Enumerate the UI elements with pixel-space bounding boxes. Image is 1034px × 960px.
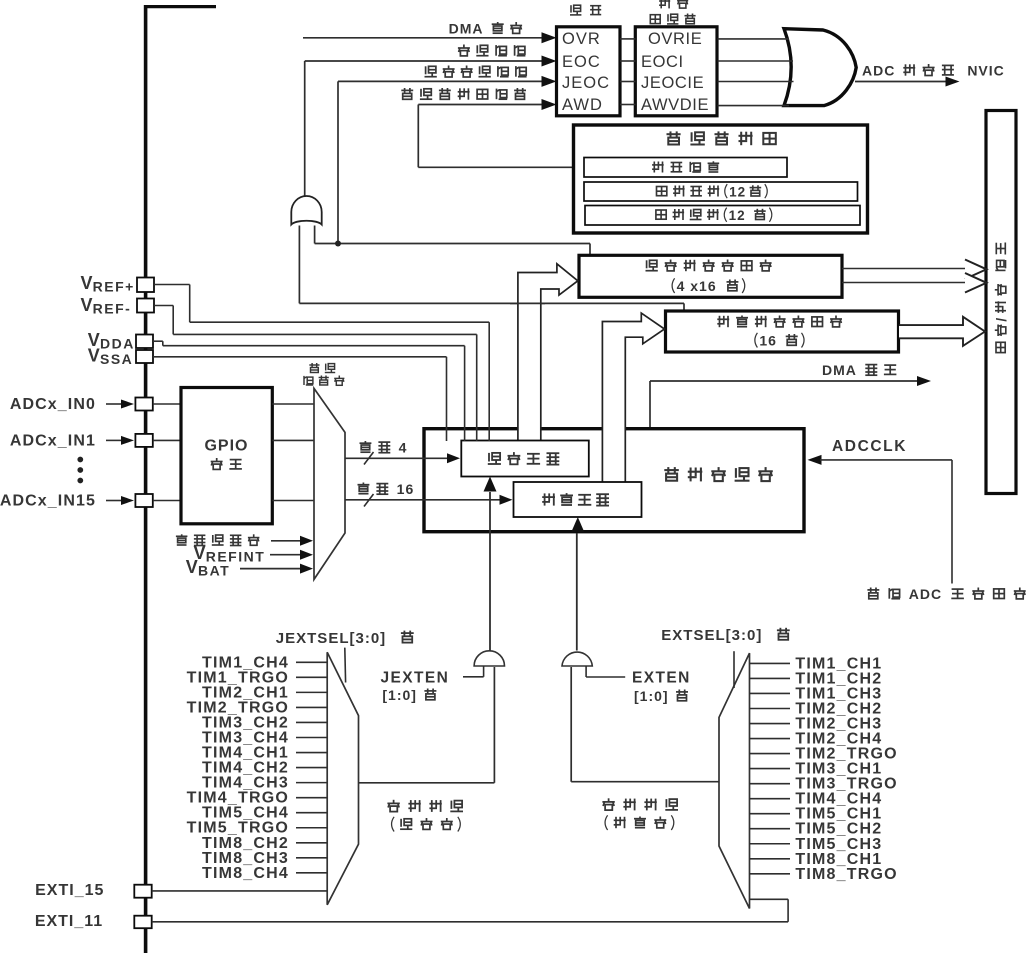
label injected register size	[672, 278, 745, 294]
label injected conversion end	[425, 66, 527, 78]
injected channels box	[461, 441, 589, 477]
svg-text:4 x16: 4 x16	[677, 278, 722, 294]
label injected data register	[646, 260, 772, 272]
input TIM1_CH3 (regular)	[750, 685, 883, 702]
pin ADCx_IN1 arrow	[106, 436, 134, 445]
junction dot JEOC	[335, 241, 341, 247]
wire ADCx_IN0 to GPIO	[153, 403, 181, 405]
label ADC converter title	[664, 467, 773, 481]
input TIM2_CH3 (regular)	[750, 716, 883, 733]
input TIM8_CH2 (injected)	[202, 835, 327, 852]
label JEXTEN	[381, 670, 450, 704]
pin VREF- label	[80, 295, 131, 317]
input TIM2_TRGO (regular)	[750, 746, 898, 763]
input VREFINT	[194, 543, 314, 565]
input TIM2_CH2 (regular)	[750, 700, 883, 717]
hollow bus regular channels to register	[602, 313, 664, 483]
pin ADCx_IN1 pad	[135, 434, 152, 447]
svg-text:V: V	[186, 557, 198, 577]
input TIM8_CH3 (injected)	[202, 850, 327, 867]
flag EOC text	[562, 53, 601, 71]
input TIM2_CH1 (injected)	[202, 684, 327, 701]
input VBAT	[186, 557, 313, 579]
EXTEN gate	[562, 652, 592, 666]
wire gate input from regular register line	[299, 226, 684, 313]
svg-text:REF-: REF-	[93, 301, 132, 317]
pin ADCx_IN0 arrow	[106, 400, 134, 409]
input TIM1_CH4 (injected)	[202, 654, 327, 671]
label JEXTSEL bits	[276, 630, 414, 647]
input TIM4_CH1 (injected)	[202, 745, 327, 762]
pin ADCx_IN15 label	[0, 493, 96, 510]
label up to 4	[360, 440, 408, 456]
label ADCCLK	[832, 438, 907, 455]
svg-text:JEXTEN: JEXTEN	[381, 670, 450, 687]
label flags (biao zhi)	[570, 5, 601, 15]
label up to 16	[358, 481, 415, 497]
wire DMA request	[650, 376, 931, 429]
svg-text:AWVDIE: AWVDIE	[641, 96, 709, 114]
IE JEOCIE text	[641, 74, 704, 92]
input TIM2_CH4 (regular)	[750, 731, 883, 748]
pin VDDA pad	[136, 335, 153, 349]
svg-text:12: 12	[729, 208, 751, 223]
input TIM5_CH1 (regular)	[750, 806, 883, 823]
input TIM4_CH4 (regular)	[750, 791, 883, 808]
input TIM4_CH3 (injected)	[202, 775, 327, 792]
svg-text:BAT: BAT	[198, 563, 230, 579]
label from ADC prescaler	[867, 586, 1025, 602]
svg-text:TIM8_CH4: TIM8_CH4	[202, 865, 289, 882]
JEXTSEL mux trapezoid	[327, 652, 358, 905]
label injected channels	[488, 452, 560, 465]
wire ADCx_IN1 to GPIO	[153, 439, 181, 441]
pin ADCx_IN0 pad	[135, 398, 152, 411]
pin VSSA label	[88, 346, 134, 368]
EXTSEL mux trapezoid	[719, 653, 750, 908]
wire regular register to bus (hollow arrow)	[899, 317, 985, 346]
label analog watchdog event	[401, 88, 526, 100]
svg-text:12: 12	[729, 184, 746, 199]
input TIM3_CH4 (injected)	[202, 730, 327, 747]
input TIM5_CH2 (regular)	[750, 821, 883, 838]
svg-text:GPIO: GPIO	[204, 438, 248, 455]
svg-text:DMA: DMA	[822, 362, 861, 378]
label compare result	[652, 161, 719, 172]
wire EXTSEL select	[733, 651, 735, 688]
svg-text:TIM8_TRGO: TIM8_TRGO	[795, 866, 897, 883]
flag OVR text	[562, 30, 601, 48]
wire VREF+	[154, 285, 489, 323]
label interrupt enable bits	[650, 0, 695, 24]
input TIM3_CH1 (regular)	[750, 761, 883, 778]
wires IE box to OR gate	[718, 39, 794, 106]
wire JEOC signal	[338, 76, 557, 244]
pin VDDA label	[88, 330, 135, 352]
svg-text:ADCx_IN0: ADCx_IN0	[10, 396, 96, 413]
input TIM2_TRGO (injected)	[187, 699, 328, 716]
wire VDDA	[153, 341, 465, 346]
svg-text:V: V	[80, 273, 92, 293]
svg-text:DDA: DDA	[100, 336, 135, 352]
wire AWD event signal	[418, 99, 585, 167]
label regular register size	[755, 333, 804, 349]
input TIM8_TRGO (regular)	[750, 866, 898, 883]
label conversion end	[458, 45, 526, 56]
pin EXTI_15 pad	[134, 885, 151, 898]
pin ADCx_IN0 label	[10, 396, 96, 413]
label analog watchdog title	[667, 131, 776, 145]
wires injected register to bus	[842, 260, 987, 293]
wire regular trigger to ADC	[571, 517, 584, 651]
svg-text:ADC: ADC	[862, 63, 900, 79]
left vertical bus line	[144, 5, 216, 953]
ADC converter box	[424, 429, 804, 532]
flag AWD text	[562, 96, 603, 114]
label upper threshold	[657, 184, 768, 199]
wire injected trigger to ADC	[484, 477, 497, 651]
label DMA request	[822, 362, 896, 378]
svg-text:NVIC: NVIC	[958, 63, 1005, 79]
pin ADCx_IN15 pad	[135, 494, 152, 507]
label start trigger regular	[602, 798, 678, 830]
JEXTEN gate	[474, 651, 504, 666]
label EXTEN	[632, 670, 691, 705]
wire EOC signal	[305, 56, 557, 198]
input TIM3_TRGO (regular)	[750, 776, 898, 793]
wire JEXTSEL select	[344, 648, 347, 683]
svg-text:OVRIE: OVRIE	[648, 30, 702, 48]
wire VDDA drop	[464, 346, 466, 441]
wire VSSA drop	[446, 357, 448, 441]
wire OR gate output to NVIC	[855, 77, 960, 87]
label address/data bus (rotated)	[994, 243, 1009, 353]
wire EXTI_15 to mux	[152, 890, 328, 892]
svg-text:V: V	[80, 295, 92, 315]
pin VREF- pad	[137, 299, 154, 313]
ellipsis dots	[77, 457, 83, 484]
input TIM1_TRGO (injected)	[187, 669, 328, 686]
wire ADCCLK	[808, 455, 953, 584]
wire DMA overflow signal	[303, 32, 557, 43]
IE AWVDIE text	[641, 96, 709, 114]
lower threshold box	[585, 206, 860, 226]
injected data register box	[579, 255, 842, 297]
svg-text:/: /	[994, 317, 1009, 322]
svg-text:EXTSEL[3:0]: EXTSEL[3:0]	[661, 627, 762, 644]
svg-text:ADCx_IN1: ADCx_IN1	[10, 432, 96, 449]
input TIM5_TRGO (injected)	[187, 820, 328, 837]
wire ADCx_IN15 to GPIO	[153, 500, 181, 502]
IE OVRIE text	[648, 30, 702, 48]
input TIM4_TRGO (injected)	[187, 790, 328, 807]
svg-text:16: 16	[392, 481, 414, 497]
input TIM1_CH1 (regular)	[750, 655, 883, 672]
pin ADCx_IN1 label	[10, 432, 96, 449]
svg-text:EXTEN: EXTEN	[632, 670, 691, 687]
svg-text:JEOCIE: JEOCIE	[641, 74, 704, 92]
compare result box	[584, 158, 787, 178]
input TIM5_CH4 (injected)	[202, 805, 327, 822]
interrupt enable box	[635, 27, 717, 116]
svg-text:OVR: OVR	[562, 30, 601, 48]
wire injected trigger output	[359, 667, 495, 783]
svg-text:EXTI_11: EXTI_11	[35, 913, 103, 930]
svg-text:AWD: AWD	[562, 96, 603, 114]
wire VREF- drop	[476, 334, 478, 441]
GPIO port box	[181, 388, 272, 524]
svg-text:REF+: REF+	[93, 279, 135, 295]
input TIM8_CH1 (regular)	[750, 851, 883, 868]
input TIM8_CH4 (injected)	[202, 865, 327, 882]
label EXTSEL bits	[661, 627, 789, 644]
wire flag-IE row connectors	[620, 39, 636, 105]
wires GPIO to analog mux	[272, 404, 314, 501]
input TIM1_CH2 (regular)	[750, 670, 883, 687]
svg-text:ADCCLK: ADCCLK	[832, 438, 907, 455]
OR gate (EOC combine)	[291, 196, 321, 225]
wire VSSA	[153, 356, 447, 358]
wire VREF+ drop	[488, 322, 490, 441]
wire EXTEN stub	[586, 666, 625, 677]
pin EXTI_11 label	[35, 913, 103, 930]
svg-text:[1:0]: [1:0]	[382, 687, 421, 703]
svg-text:JEXTSEL[3:0]: JEXTSEL[3:0]	[276, 630, 392, 647]
flag JEOC text	[562, 74, 610, 92]
flag register box	[557, 27, 621, 116]
pin EXTI_15 label	[35, 882, 104, 899]
regular data register box	[666, 311, 899, 352]
OR gate (ADC interrupt)	[784, 29, 856, 106]
wire regular trigger output	[571, 667, 719, 782]
svg-text:V: V	[88, 346, 100, 366]
pin ADCx_IN15 arrow	[106, 496, 134, 505]
IE EOCI text	[641, 53, 684, 71]
wire EXTI_11 to regular mux	[152, 899, 788, 922]
label regular data register	[717, 316, 842, 328]
upper threshold box	[584, 182, 858, 201]
pin VSSA pad	[136, 350, 153, 363]
input temperature sensor	[176, 534, 313, 546]
label GPIO port	[204, 438, 248, 470]
label analog mux	[304, 363, 344, 385]
svg-text:ADCx_IN15: ADCx_IN15	[0, 493, 96, 510]
address-data bus box	[986, 111, 1016, 494]
label start trigger injected	[387, 800, 463, 832]
svg-text:EXTI_15: EXTI_15	[35, 882, 104, 899]
svg-text:DMA: DMA	[449, 21, 488, 37]
wire VREF-	[154, 306, 477, 335]
wire up-to-4 injected	[345, 452, 460, 465]
hollow bus injected channels to register	[518, 264, 578, 441]
svg-text:16: 16	[759, 333, 781, 349]
analog mux trapezoid	[314, 388, 345, 579]
label ADC interrupt to NVIC	[862, 63, 1005, 79]
svg-text:[1:0]: [1:0]	[634, 688, 673, 704]
label regular channels	[542, 493, 609, 506]
svg-text:JEOC: JEOC	[562, 74, 610, 92]
svg-text:SSA: SSA	[100, 351, 133, 367]
pin VREF+ label	[80, 273, 134, 295]
wire gate input from injected register line	[315, 226, 590, 257]
svg-text:EOC: EOC	[562, 53, 601, 71]
wire EOC line over channel	[510, 302, 545, 304]
pin EXTI_11 pad	[134, 916, 151, 929]
svg-text:ADC: ADC	[904, 586, 947, 602]
analog watchdog box	[574, 125, 868, 233]
pin VREF+ pad	[137, 278, 154, 293]
input TIM5_CH3 (regular)	[750, 836, 883, 853]
regular channels box	[514, 482, 642, 517]
input TIM3_CH2 (injected)	[202, 714, 327, 731]
wire up-to-16 regular	[345, 494, 513, 507]
svg-text:4: 4	[394, 440, 408, 456]
input TIM4_CH2 (injected)	[202, 760, 327, 777]
label lower threshold	[656, 208, 772, 223]
wire JEXTEN stub	[463, 666, 484, 677]
label DMA overflow	[449, 21, 522, 37]
svg-text:EOCI: EOCI	[641, 53, 684, 71]
